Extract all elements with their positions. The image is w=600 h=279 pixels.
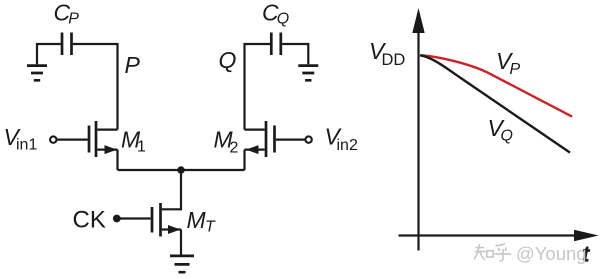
label node P: [125, 52, 141, 78]
curve V_P (red): [420, 55, 572, 116]
x axis arrowhead: [574, 230, 599, 242]
input terminal Vin2 (open circle): [305, 136, 311, 142]
svg-text:Q: Q: [501, 127, 513, 144]
label node Q: [219, 47, 237, 73]
label CK: [73, 206, 106, 233]
transistor M1: [89, 121, 118, 157]
y axis (voltage): [417, 31, 419, 251]
wire source M1 to tail node: [116, 150, 118, 170]
svg-text:P: P: [510, 61, 521, 78]
input terminal Vin1 (open circle): [50, 136, 56, 142]
wire CK terminal to gate of MT: [121, 217, 151, 219]
svg-text:DD: DD: [382, 51, 406, 69]
ground (C_P side): [27, 66, 47, 81]
transistor M2: [245, 121, 275, 157]
label M1: [121, 127, 146, 156]
transistor MT: [152, 203, 181, 237]
svg-text:P: P: [125, 52, 141, 78]
wire C_P right lead to drain of M1 (node P): [73, 44, 118, 130]
watermark 知乎 @Young: [474, 244, 511, 261]
wire gate of M2 to Vin2 terminal: [276, 139, 305, 141]
curve V_Q (black): [420, 55, 570, 152]
svg-text:in1: in1: [16, 137, 37, 154]
svg-text:2: 2: [230, 140, 239, 157]
label Vin2: [325, 124, 358, 155]
junction tail node: [177, 166, 184, 173]
svg-text:P: P: [68, 11, 79, 28]
svg-text:Q: Q: [219, 47, 237, 73]
ground (C_Q side): [298, 66, 318, 81]
label V_P: [496, 48, 521, 78]
capacitor C_Q: [271, 33, 281, 56]
label VDD: [369, 38, 405, 69]
svg-text:T: T: [205, 219, 216, 236]
svg-text:CK: CK: [73, 206, 106, 233]
label C_Q: [262, 0, 289, 28]
svg-text:@Young: @Young: [516, 243, 587, 264]
label MT: [187, 207, 217, 236]
wire C_Q left lead to drain of M2 (node Q): [245, 44, 271, 130]
svg-text:M: M: [187, 207, 207, 233]
wire source M2 to tail node: [243, 150, 245, 170]
label t (time axis): [582, 242, 591, 267]
clock terminal CK (solid dot): [113, 215, 121, 223]
svg-text:1: 1: [137, 139, 146, 156]
wire tail node to drain of MT: [162, 170, 181, 209]
label V_Q: [488, 115, 513, 145]
x axis (time): [399, 234, 577, 236]
label C_P: [54, 0, 80, 28]
wire tail rail (sources of M1,M2): [118, 169, 245, 171]
svg-text:in2: in2: [337, 137, 358, 154]
wire source MT to ground: [180, 230, 182, 255]
wire C_P left lead to ground: [37, 44, 61, 64]
label Vin1: [4, 124, 38, 154]
label M2: [214, 127, 239, 157]
ground (MT): [170, 256, 194, 272]
svg-text:Q: Q: [277, 11, 289, 28]
capacitor C_P: [62, 33, 72, 56]
y axis arrowhead: [412, 8, 424, 33]
wire Vin1 terminal to gate of M1: [57, 139, 87, 141]
wire C_Q right lead to ground: [282, 44, 308, 64]
